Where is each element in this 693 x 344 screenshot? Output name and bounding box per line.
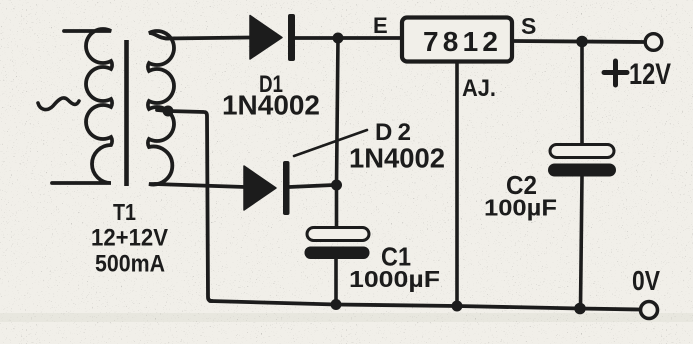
svg-text:1N4002: 1N4002 <box>222 90 320 121</box>
wire: junction down to C1 top plate <box>335 185 339 229</box>
svg-text:12+12V: 12+12V <box>91 225 169 252</box>
wire: C2 to rail <box>581 176 583 308</box>
wire: secondary bottom to D2 anode <box>155 184 245 187</box>
svg-text:0V: 0V <box>632 265 660 296</box>
wire: D1 cathode to node E <box>295 36 402 40</box>
capacitor C2 <box>548 145 616 177</box>
wire: C1 to 0V rail <box>334 258 338 304</box>
wire: secondary top to D1 anode <box>166 38 250 39</box>
svg-text:1000µF: 1000µF <box>349 266 440 292</box>
svg-text:AJ.: AJ. <box>462 75 496 102</box>
wire: center tap to 0V rail <box>157 110 212 301</box>
svg-text:100µF: 100µF <box>484 195 557 221</box>
wire: 0V rail <box>210 301 640 310</box>
transformer T1 secondary winding <box>148 31 174 185</box>
terminal +12V <box>645 34 662 51</box>
label +12V <box>604 58 671 91</box>
svg-text:1N4002: 1N4002 <box>349 143 445 174</box>
capacitor C1 <box>305 228 370 260</box>
label D1 / 1N4002 <box>222 71 320 121</box>
node: D2/C1 junction <box>331 180 342 191</box>
label T1 / 12+12V / 500mA <box>91 199 169 278</box>
node: C2 rail junction <box>574 303 586 315</box>
label D2 / 1N4002 with leader line <box>294 119 445 174</box>
transformer T1 primary winding <box>52 29 112 183</box>
node: E junction <box>333 33 344 44</box>
AC source squiggle <box>38 98 79 110</box>
svg-text:T1: T1 <box>113 199 136 225</box>
wire: D2 cathode to C1 junction <box>289 185 334 187</box>
label C1 / 1000uF <box>349 242 440 293</box>
transformer T1 core <box>124 40 129 186</box>
node: AJ rail junction <box>452 301 463 312</box>
diode D2 <box>244 161 290 215</box>
wire: junction down to C2 <box>580 41 584 145</box>
wire: 7812 AJ pin to rail <box>455 62 459 306</box>
wire: 7812 output S to +12V terminal <box>513 41 645 42</box>
node: output/C2 junction <box>576 36 588 48</box>
svg-text:E: E <box>373 13 388 38</box>
diode D1 <box>250 14 295 61</box>
node: C1 rail junction <box>331 299 342 310</box>
wire: node E down to D2 cathode node <box>337 38 339 185</box>
label C2 / 100uF <box>484 172 557 221</box>
regulator U1 7812 <box>402 18 512 62</box>
terminal 0V <box>641 302 658 319</box>
svg-text:12V: 12V <box>629 58 671 91</box>
svg-text:500mA: 500mA <box>95 251 165 278</box>
svg-text:S: S <box>521 13 536 39</box>
node: secondary center tap <box>163 106 174 117</box>
